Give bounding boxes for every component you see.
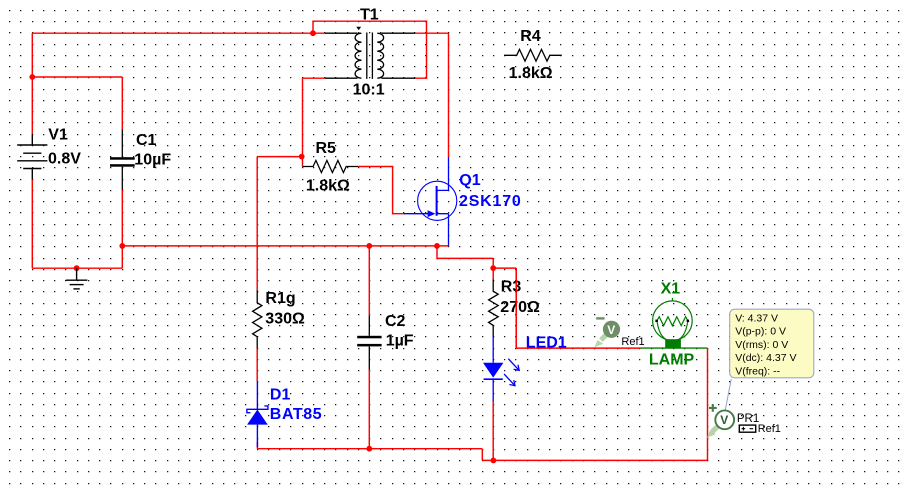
resistor R1g [253, 290, 262, 348]
svg-text:270Ω: 270Ω [500, 299, 540, 316]
wire R5 right to Q1 gate [358, 167, 403, 214]
svg-text:1.8kΩ: 1.8kΩ [306, 177, 350, 194]
svg-text:0.8V: 0.8V [48, 150, 81, 167]
wire D1 bottom [256, 442, 258, 449]
node C2 bottom junction [366, 446, 372, 452]
resistor R4 [504, 49, 562, 61]
wire V1 to C1 top [32, 77, 122, 130]
svg-text:V1: V1 [48, 127, 68, 144]
svg-text:V(rms): 0 V: V(rms): 0 V [735, 339, 788, 351]
svg-text:X1: X1 [661, 281, 681, 298]
wire LED bottom [492, 402, 494, 460]
svg-text:V(dc): 4.37 V: V(dc): 4.37 V [735, 352, 796, 364]
ground [66, 268, 88, 289]
resistor R3 [489, 279, 499, 337]
wire V1 bottom to ground rail [32, 180, 122, 269]
svg-text:R3: R3 [501, 279, 522, 296]
svg-text:V: V [607, 323, 615, 337]
svg-text:BAT85: BAT85 [270, 406, 323, 423]
tooltip measurement box [725, 309, 814, 410]
svg-text:T1: T1 [360, 7, 379, 24]
wire R1g bottom to D1 [256, 348, 258, 381]
svg-text:R5: R5 [316, 140, 337, 157]
wire C2 top [368, 246, 370, 316]
wire R5 junction down to R5 left pin [302, 157, 304, 167]
node T1 primary top junction [310, 30, 316, 36]
svg-text:R1g: R1g [265, 290, 295, 307]
wire top from V1 to T1 [32, 32, 324, 34]
node R3 top junction [490, 265, 496, 271]
lamp X1 [653, 298, 693, 349]
node C2 bus junction [366, 243, 372, 249]
svg-text:10:1: 10:1 [353, 82, 385, 99]
probe Ref1 voltage probe [595, 317, 621, 347]
svg-text:Ref1: Ref1 [758, 423, 781, 435]
LED LED1 [483, 336, 519, 402]
wire R3 top stub [492, 268, 494, 279]
wire overlay R3 branch over labels [515, 268, 517, 348]
wire bus ground row [122, 245, 448, 247]
svg-text:1.8kΩ: 1.8kΩ [509, 65, 553, 82]
svg-text:LED1: LED1 [526, 335, 567, 352]
battery V1 [17, 134, 47, 179]
svg-text:Ref1: Ref1 [621, 336, 644, 348]
PR1 ref icon [739, 425, 755, 432]
node Q1 source junction [434, 243, 440, 249]
svg-text:1µF: 1µF [386, 332, 414, 349]
node R5 left junction [299, 154, 305, 160]
wire R5 junction to R1g branch [257, 157, 302, 291]
transformer T1 [325, 27, 415, 79]
probe PR1 [707, 404, 734, 438]
wire loop primary-top to secondary-bottom [313, 21, 427, 78]
svg-text:C2: C2 [385, 313, 406, 330]
wire C1 bottom down [121, 190, 123, 268]
svg-text:10µF: 10µF [134, 152, 171, 169]
wire lamp terminal green [640, 347, 707, 349]
node LED bottom junction [491, 458, 497, 464]
svg-text:330Ω: 330Ω [265, 311, 305, 328]
svg-text:V(p-p): 0 V: V(p-p): 0 V [735, 326, 786, 338]
capacitor C2 [357, 316, 381, 370]
node C1 bus junction [119, 243, 125, 249]
diode D1 [247, 382, 268, 448]
wire V1 top lead [31, 33, 33, 134]
resistor R5 [302, 160, 358, 172]
svg-text:V: V [720, 413, 728, 427]
svg-text:2SK170: 2SK170 [459, 193, 522, 210]
svg-text:V(freq): --: V(freq): -- [735, 365, 780, 377]
transistor Q1 [403, 158, 457, 246]
wire lamp right down [707, 348, 709, 460]
wire primary bottom to R5 junction [303, 78, 325, 156]
node ground junction [74, 265, 80, 271]
wire secondary top to Q1 drain [415, 33, 448, 157]
svg-text:D1: D1 [270, 386, 291, 403]
svg-text:C1: C1 [136, 132, 157, 149]
wire bottom rail [257, 449, 707, 461]
wire C2 bottom [368, 370, 370, 449]
node V1/C1 junction [29, 74, 35, 80]
wire R3 junction to lamp [493, 268, 640, 348]
svg-text:V: 4.37 V: V: 4.37 V [735, 313, 778, 325]
wire Q1 source branch to R3 [437, 246, 493, 268]
svg-text:R4: R4 [520, 28, 541, 45]
svg-text:Q1: Q1 [459, 172, 480, 189]
svg-text:PR1: PR1 [737, 413, 759, 425]
capacitor C1 [110, 130, 135, 191]
svg-text:LAMP: LAMP [649, 352, 695, 369]
